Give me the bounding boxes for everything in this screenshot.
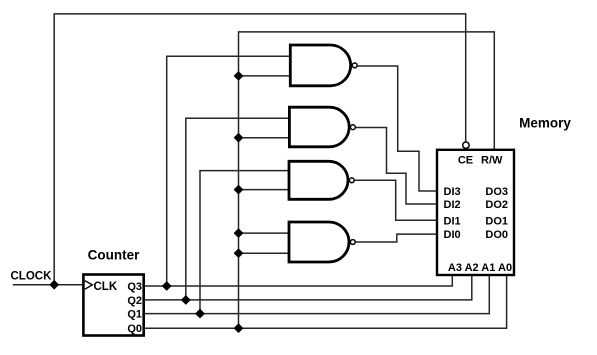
svg-text:DO0: DO0 bbox=[485, 229, 508, 241]
svg-text:R/W: R/W bbox=[481, 155, 503, 167]
svg-text:CLK: CLK bbox=[94, 281, 118, 293]
svg-text:DI2: DI2 bbox=[444, 199, 461, 211]
svg-text:DI0: DI0 bbox=[444, 229, 461, 241]
svg-text:DI1: DI1 bbox=[444, 215, 461, 227]
svg-text:Counter: Counter bbox=[88, 248, 140, 263]
svg-text:Q2: Q2 bbox=[127, 295, 142, 307]
svg-text:DO2: DO2 bbox=[485, 199, 508, 211]
svg-text:Q3: Q3 bbox=[127, 281, 142, 293]
svg-text:CLOCK: CLOCK bbox=[11, 271, 53, 283]
svg-text:DI3: DI3 bbox=[444, 186, 461, 198]
svg-text:DO3: DO3 bbox=[485, 186, 508, 198]
svg-text:A3 A2 A1 A0: A3 A2 A1 A0 bbox=[448, 262, 512, 274]
svg-text:Q1: Q1 bbox=[127, 309, 142, 321]
svg-text:DO1: DO1 bbox=[485, 215, 508, 227]
svg-text:Q0: Q0 bbox=[127, 323, 142, 335]
svg-text:Memory: Memory bbox=[519, 116, 571, 131]
svg-text:CE: CE bbox=[458, 155, 473, 167]
